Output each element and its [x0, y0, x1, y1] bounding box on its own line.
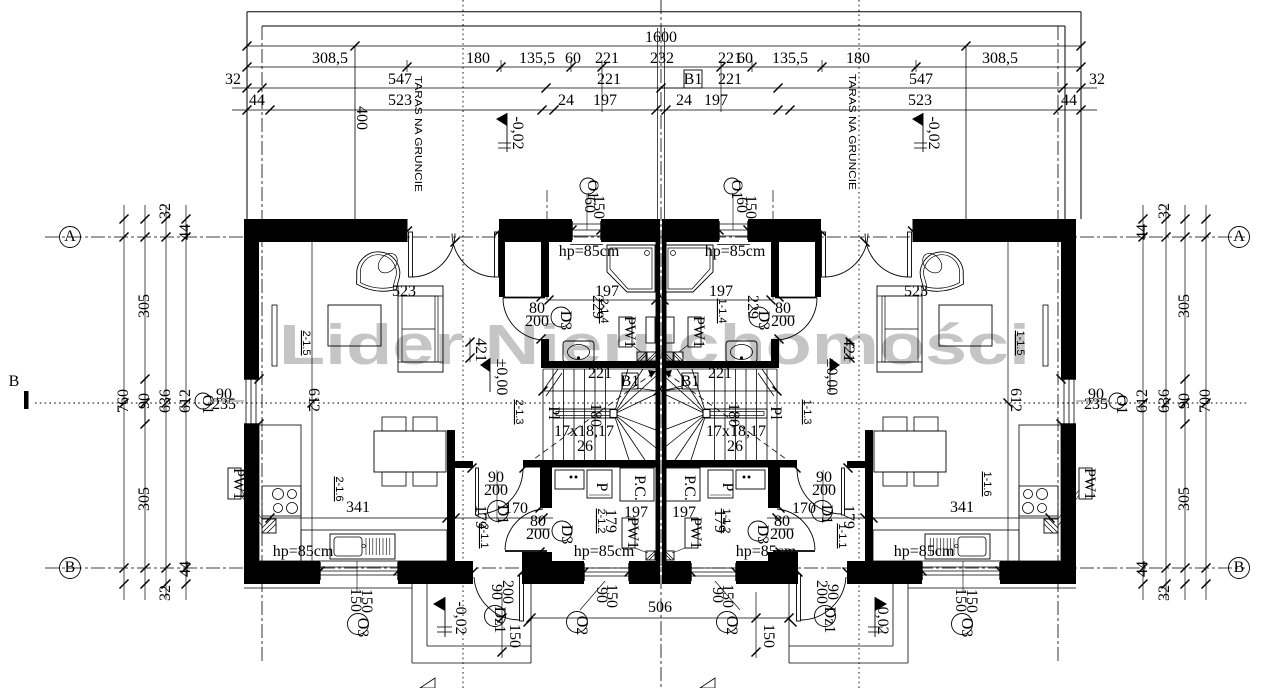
- wall utility left upper: [540, 467, 552, 508]
- svg-text:612: 612: [305, 388, 322, 412]
- grid line left wall dash-dot: [261, 26, 263, 662]
- window tag O3 left: [348, 614, 369, 635]
- svg-text:-0,02: -0,02: [509, 116, 526, 149]
- svg-text:150: 150: [719, 584, 736, 608]
- stair top edge: [543, 368, 656, 370]
- svg-text:150: 150: [590, 195, 607, 219]
- door Dz1 tick: [524, 618, 533, 627]
- svg-text:Pl: Pl: [767, 406, 784, 420]
- svg-text:197: 197: [593, 92, 617, 109]
- window O1 top leader: [586, 194, 588, 230]
- svg-text:221: 221: [718, 71, 742, 88]
- svg-text:90: 90: [824, 584, 841, 600]
- side dim lines L: [123, 205, 125, 600]
- radiator living: [272, 305, 277, 366]
- svg-text:2-1.6: 2-1.6: [333, 476, 345, 501]
- svg-text:200: 200: [484, 482, 508, 499]
- svg-text:44: 44: [177, 561, 194, 577]
- wall top right of window O1: [601, 219, 656, 242]
- svg-text:235: 235: [212, 396, 236, 413]
- kitchen counter left: [259, 425, 301, 561]
- svg-text:180: 180: [466, 50, 490, 67]
- svg-text:421: 421: [472, 338, 489, 362]
- armchair: [355, 246, 404, 294]
- wall bathroom left lower: [541, 339, 549, 361]
- svg-text:44: 44: [1061, 92, 1077, 109]
- svg-text:179: 179: [711, 509, 728, 533]
- door D3 utility leaf: [505, 550, 547, 552]
- svg-text:D1: D1: [818, 505, 835, 525]
- svg-text:A: A: [64, 228, 76, 245]
- svg-text:150: 150: [506, 624, 523, 648]
- wall tick marks: [451, 238, 460, 247]
- label PW1 utility left: [622, 518, 635, 548]
- svg-text:26: 26: [577, 438, 593, 455]
- svg-text:Pl: Pl: [545, 406, 562, 420]
- svg-text:150: 150: [358, 589, 375, 613]
- svg-text:150: 150: [603, 584, 620, 608]
- svg-text:44: 44: [1134, 224, 1151, 240]
- svg-text:90: 90: [136, 393, 153, 409]
- svg-text:PW1: PW1: [690, 316, 707, 348]
- bathroom dim line: [549, 299, 656, 301]
- window O3 kitchen bottom wall: [320, 566, 398, 568]
- shower tray: [607, 245, 655, 292]
- door Ob2 arc left: [413, 234, 456, 278]
- window tag O2 left: [567, 612, 588, 633]
- kitchen vent hatched: [262, 519, 276, 533]
- window tag O1 top right: [724, 178, 740, 194]
- section line B-B horizontal dotted: [35, 402, 1248, 404]
- label PW1 kitchen right: [1079, 468, 1092, 499]
- svg-text:341: 341: [950, 499, 974, 516]
- svg-text:170: 170: [792, 500, 816, 517]
- porch outline: [411, 584, 413, 663]
- kitchen counter bottom: [301, 530, 447, 561]
- dim 421 line: [469, 338, 471, 362]
- door tag Dz1 right: [815, 606, 836, 627]
- svg-text:hp=85cm: hp=85cm: [273, 543, 334, 560]
- svg-text:P: P: [593, 483, 610, 492]
- door tag D3 bath right: [749, 307, 769, 327]
- svg-text:221: 221: [595, 50, 619, 67]
- door Dz1 leaf: [520, 574, 524, 621]
- window living room left wall 90x235: [245, 379, 247, 424]
- svg-text:523: 523: [392, 283, 416, 300]
- door tag D3 utility left: [552, 521, 572, 541]
- svg-text:612: 612: [177, 389, 194, 413]
- svg-text:1-1.3: 1-1.3: [801, 399, 813, 424]
- label PW1 utility right: [685, 518, 698, 548]
- svg-text:±0,00: ±0,00: [823, 359, 840, 396]
- svg-text:P.C.: P.C.: [631, 475, 648, 501]
- svg-text:B1: B1: [621, 373, 640, 390]
- svg-text:60: 60: [565, 50, 581, 67]
- svg-text:179: 179: [602, 509, 619, 533]
- svg-text:hp=85cm: hp=85cm: [894, 543, 955, 560]
- level marker -0,02 top right: [912, 113, 923, 126]
- svg-text:308,5: 308,5: [312, 50, 348, 67]
- svg-text:A: A: [1233, 228, 1245, 245]
- wall utility left lower: [540, 552, 552, 562]
- svg-text:547: 547: [388, 71, 412, 88]
- svg-text:1-1.4: 1-1.4: [716, 298, 728, 323]
- dim row 1600: [247, 45, 1081, 47]
- svg-text:197: 197: [704, 92, 728, 109]
- svg-text:B: B: [65, 559, 76, 576]
- svg-text:1-1.6: 1-1.6: [981, 471, 993, 496]
- svg-text:523: 523: [908, 92, 932, 109]
- grid bubble A right: [1229, 227, 1250, 248]
- terrace edge line left: [354, 46, 356, 219]
- dim row 4: [232, 109, 1097, 111]
- wall corridor top left piece: [455, 461, 473, 468]
- window O1 top wall: [572, 223, 601, 225]
- svg-text:44: 44: [1134, 561, 1151, 577]
- dim leader 90-200: [496, 470, 498, 522]
- door Ob2 leaf left: [409, 232, 413, 277]
- utility vent hatched: [646, 551, 655, 560]
- wall bottom right of utility window: [629, 561, 656, 584]
- level marker +-0,00 hall: [480, 358, 490, 372]
- svg-text:341: 341: [346, 499, 370, 516]
- svg-text:506: 506: [648, 599, 672, 616]
- dim line porch 150 left: [501, 592, 503, 658]
- svg-text:PW1: PW1: [1081, 468, 1098, 500]
- svg-text:P.C.: P.C.: [681, 475, 698, 501]
- svg-text:O1: O1: [1113, 395, 1130, 415]
- svg-text:O3: O3: [958, 618, 975, 638]
- door tag D1 right: [812, 501, 833, 522]
- svg-text:135,5: 135,5: [519, 50, 555, 67]
- svg-text:2-1.5: 2-1.5: [300, 330, 312, 355]
- grid line right wall dash-dot: [1057, 26, 1059, 662]
- window O2 leader: [580, 581, 605, 610]
- svg-text:PW1: PW1: [621, 316, 638, 348]
- dining table: [374, 431, 446, 472]
- svg-text:232: 232: [650, 50, 674, 67]
- svg-text:305: 305: [136, 487, 153, 511]
- svg-text:1-1.5: 1-1.5: [1014, 330, 1026, 355]
- level marker -0,02 top left: [496, 113, 507, 126]
- sofa: [398, 286, 443, 372]
- svg-text:200: 200: [812, 482, 836, 499]
- wall bottom window O3 to porch: [398, 561, 473, 584]
- terrace outer outline top: [247, 11, 1081, 13]
- svg-text:180: 180: [587, 403, 604, 427]
- dim 506 bottom: [531, 617, 789, 619]
- svg-text:180: 180: [725, 403, 742, 427]
- stair break line diagonal: [542, 369, 558, 392]
- svg-text:90: 90: [1176, 393, 1193, 409]
- chair bottom-right: [413, 472, 437, 486]
- svg-text:221: 221: [588, 365, 612, 382]
- dim row 2: [247, 66, 1081, 68]
- stove: [262, 486, 301, 516]
- grid line B dash-dot: [45, 567, 1245, 569]
- door D1 leaf: [476, 468, 479, 515]
- svg-text:200: 200: [770, 526, 794, 543]
- section line vertical dotted left: [462, 0, 464, 688]
- svg-text:612: 612: [1007, 388, 1024, 412]
- svg-text:179: 179: [472, 505, 489, 529]
- stair walk line dashed: [527, 371, 656, 464]
- dim extension verticals top: [406, 60, 408, 72]
- svg-text:308,5: 308,5: [982, 50, 1018, 67]
- svg-text:235: 235: [1084, 396, 1108, 413]
- kitchen sink: [330, 534, 395, 559]
- dim line interior 612 vertical: [311, 224, 313, 561]
- svg-text:636: 636: [157, 389, 174, 413]
- svg-text:32: 32: [225, 71, 241, 88]
- grid line B1 center dash-dot: [660, 0, 662, 688]
- dim row 3: [232, 87, 1097, 89]
- stair tag B1 right: [682, 373, 698, 389]
- svg-text:32: 32: [157, 203, 174, 219]
- stair B1 leader: [637, 388, 658, 391]
- grid bubble B right: [1229, 558, 1250, 579]
- bathroom vent shafts hatched: [637, 352, 646, 361]
- door tag D3 utility right: [748, 521, 768, 541]
- bathroom cabinet: [646, 317, 655, 343]
- party wall left leaf: [656, 219, 661, 584]
- grid line bathroom dash-dot left: [546, 190, 548, 300]
- svg-text:700: 700: [1197, 389, 1214, 413]
- washbasin: [563, 341, 594, 362]
- stair dim 221 line: [543, 390, 658, 392]
- svg-text:O3: O3: [354, 618, 371, 638]
- window tag O1 right wall: [1109, 393, 1125, 409]
- svg-text:150: 150: [760, 624, 777, 648]
- svg-text:421: 421: [840, 338, 857, 362]
- chair top-right: [413, 417, 437, 431]
- label B1 top: [684, 70, 702, 88]
- svg-text:26: 26: [727, 438, 743, 455]
- svg-text:197: 197: [709, 283, 733, 300]
- svg-text:TARAS NA GRUNCIE: TARAS NA GRUNCIE: [846, 74, 858, 190]
- svg-text:200: 200: [526, 526, 550, 543]
- wall bottom entrance jamb: [522, 552, 543, 584]
- level marker -0,02 bottom: [433, 597, 445, 611]
- wall bottom left of window O3: [244, 561, 320, 584]
- bottom cut marks: [420, 678, 435, 688]
- window tag O3 right: [952, 614, 973, 635]
- svg-text:PW1: PW1: [624, 517, 641, 549]
- section line vertical dotted right: [858, 0, 860, 688]
- door tag D3 bath left: [551, 307, 571, 327]
- svg-text:170: 170: [504, 500, 528, 517]
- svg-text:PW1: PW1: [687, 517, 704, 549]
- grade line below wall: [244, 587, 412, 589]
- svg-text:hp=85cm: hp=85cm: [705, 243, 766, 260]
- svg-text:32: 32: [1156, 585, 1173, 601]
- svg-text:305: 305: [136, 294, 153, 318]
- window tag O2 right: [717, 612, 738, 633]
- svg-text:523: 523: [388, 92, 412, 109]
- svg-text:B: B: [9, 373, 20, 390]
- wall top between door and window O1: [499, 219, 572, 242]
- party wall extension lines top: [657, 28, 659, 219]
- svg-text:150: 150: [742, 195, 759, 219]
- dim line kitchen 341: [262, 517, 553, 519]
- svg-text:135,5: 135,5: [772, 50, 808, 67]
- svg-text:O2: O2: [723, 616, 740, 636]
- grid line bathroom dash-dot right: [772, 190, 774, 300]
- label PW1 bath left: [619, 317, 632, 347]
- svg-text:150: 150: [963, 589, 980, 613]
- svg-text:TARAS NA GRUNCIE: TARAS NA GRUNCIE: [412, 76, 424, 192]
- svg-text:24: 24: [676, 92, 692, 109]
- svg-text:-0,02: -0,02: [925, 116, 942, 149]
- svg-text:221: 221: [708, 365, 732, 382]
- dim line porch 150 right: [755, 592, 757, 658]
- door Dz1 arc: [474, 577, 520, 620]
- svg-text:32: 32: [157, 585, 174, 601]
- svg-text:±0,00: ±0,00: [493, 359, 510, 396]
- wall bottom below utility door: [543, 561, 584, 584]
- svg-text:200: 200: [771, 313, 795, 330]
- svg-text:-0,02: -0,02: [452, 601, 469, 634]
- svg-text:612: 612: [1134, 389, 1151, 413]
- svg-text:hp=85cm: hp=85cm: [559, 243, 620, 260]
- svg-text:32: 32: [1156, 203, 1173, 219]
- svg-text:547: 547: [909, 71, 933, 88]
- wall left exterior lower: [244, 424, 259, 584]
- svg-text:D3: D3: [755, 311, 772, 331]
- wall partition living-hall: [499, 242, 505, 297]
- svg-text:221: 221: [597, 71, 621, 88]
- grid line A dash-dot: [45, 236, 1245, 238]
- window O1 sill line: [570, 244, 603, 246]
- window utility bottom wall hp85: [584, 567, 629, 569]
- door tag D1 left: [488, 501, 509, 522]
- svg-text:Dz1: Dz1: [821, 607, 838, 634]
- label PW1 bath right: [688, 317, 701, 347]
- svg-text:305: 305: [1176, 487, 1193, 511]
- washer P: [587, 470, 612, 498]
- svg-text:B1: B1: [681, 373, 700, 390]
- door Ob2 arc right: [452, 234, 495, 278]
- svg-text:hp=85cm: hp=85cm: [736, 543, 797, 560]
- svg-text:B1: B1: [684, 71, 703, 88]
- svg-text:636: 636: [1156, 389, 1173, 413]
- svg-text:O2: O2: [573, 616, 590, 636]
- terrace edge line right: [965, 46, 967, 219]
- grid bubble A left: [60, 227, 81, 248]
- wall stair bottom: [523, 460, 656, 468]
- stair walk line arrowhead: [648, 370, 656, 378]
- svg-text:44: 44: [177, 224, 194, 240]
- svg-text:P: P: [719, 483, 736, 492]
- wall bathroom bottom: [541, 361, 656, 368]
- svg-text:305: 305: [1176, 294, 1193, 318]
- window tag O1 top left: [580, 178, 596, 194]
- svg-text:D3: D3: [754, 525, 771, 545]
- svg-text:D3: D3: [558, 525, 575, 545]
- wall kitchen-corridor: [447, 430, 455, 563]
- stair winder rays: [614, 369, 628, 414]
- door D1 arc: [479, 469, 524, 515]
- chair bottom-left: [382, 472, 406, 486]
- door tag Dz1 left: [485, 606, 506, 627]
- window O3 leader: [356, 561, 358, 592]
- svg-text:44: 44: [249, 92, 265, 109]
- door D3 bathroom arc: [503, 298, 545, 340]
- stair tag B1 left: [622, 373, 638, 389]
- label PW1 kitchen left: [228, 468, 241, 499]
- door D3 utility arc: [505, 509, 543, 550]
- door D3 bathroom leaf: [503, 297, 545, 299]
- svg-text:180: 180: [846, 50, 870, 67]
- utility basin: [555, 470, 584, 489]
- svg-text:200: 200: [525, 313, 549, 330]
- wall left exterior upper: [244, 219, 259, 379]
- boiler PC: [620, 468, 654, 501]
- svg-text:-0,02: -0,02: [874, 601, 891, 634]
- svg-text:32: 32: [1089, 71, 1105, 88]
- party wall right leaf: [662, 219, 667, 584]
- svg-text:760: 760: [115, 389, 132, 413]
- door Ob2 leaf right: [495, 232, 499, 277]
- svg-text:2-1.3: 2-1.3: [513, 399, 525, 424]
- wall bathroom left upper: [541, 242, 549, 297]
- svg-text:400: 400: [353, 106, 370, 130]
- svg-text:24: 24: [558, 92, 574, 109]
- svg-text:229: 229: [589, 295, 606, 319]
- svg-text:B: B: [1234, 559, 1245, 576]
- stair treads: [542, 369, 544, 460]
- coffee table: [328, 305, 381, 346]
- svg-text:200: 200: [499, 580, 516, 604]
- right unit mirrored geometry: [658, 194, 1077, 663]
- svg-text:179: 179: [840, 505, 857, 529]
- wall top exterior: [244, 219, 408, 242]
- chair top-left: [382, 417, 406, 431]
- grid bubble B left: [60, 558, 81, 579]
- svg-text:D3: D3: [557, 311, 574, 331]
- svg-text:523: 523: [904, 283, 928, 300]
- svg-text:60: 60: [737, 50, 753, 67]
- svg-text:1600: 1600: [645, 29, 677, 46]
- stair handrail: [553, 409, 615, 418]
- terrace inner outline top: [262, 25, 1065, 27]
- window tag O1 left wall: [195, 393, 211, 409]
- side dim lines R: [1205, 205, 1207, 600]
